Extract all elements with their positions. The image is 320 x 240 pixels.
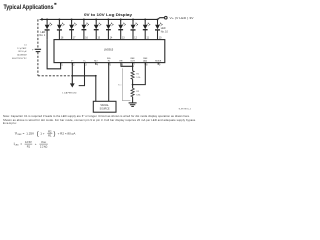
svg-text:ELECTROLYTIC: ELECTROLYTIC — [12, 58, 27, 60]
svg-text:SOURCE: SOURCE — [100, 108, 110, 110]
svg-text:+: + — [35, 142, 37, 146]
svg-text:R2: R2 — [48, 129, 52, 133]
svg-text:1.25V: 1.25V — [26, 131, 34, 135]
svg-text:No. 1: No. 1 — [39, 34, 45, 37]
svg-text:=: = — [20, 142, 22, 146]
svg-text:Example:: Example: — [3, 121, 17, 125]
svg-text:2.2 µF TANT.: 2.2 µF TANT. — [17, 47, 27, 50]
svg-text:Shown as above is wired for do: Shown as above is wired for dot mode. Fo… — [3, 118, 196, 122]
svg-text:No. 10: No. 10 — [161, 30, 169, 33]
svg-text:Typical Applications: Typical Applications — [4, 4, 54, 11]
svg-text:ALUMINUM: ALUMINUM — [17, 54, 26, 57]
svg-text:1 mA PER LED: 1 mA PER LED — [62, 92, 77, 95]
svg-text:LM3915: LM3915 — [104, 47, 114, 51]
svg-text:SIGNAL: SIGNAL — [100, 104, 109, 107]
svg-text:2.2 kΩ: 2.2 kΩ — [40, 144, 48, 148]
svg-text:Note: Capacitor C1 is required: Note: Capacitor C1 is required if leads … — [3, 114, 190, 118]
svg-text:OR 10 µF: OR 10 µF — [18, 51, 27, 53]
svg-text:R1: R1 — [27, 144, 31, 148]
svg-text:R1: R1 — [48, 133, 52, 137]
svg-text:1 +: 1 + — [40, 131, 45, 135]
svg-text:TL/H/7970–2: TL/H/7970–2 — [178, 108, 191, 110]
svg-text:0V to 10V Log Display: 0V to 10V Log Display — [84, 13, 132, 17]
svg-text:=: = — [23, 131, 25, 135]
svg-text:LED: LED — [15, 145, 19, 147]
svg-text:V+ (V LED ) 3V: V+ (V LED ) 3V — [170, 16, 194, 20]
svg-text:MODE: MODE — [155, 60, 162, 62]
svg-text:): ) — [53, 131, 55, 138]
svg-text:ADJ: ADJ — [143, 59, 147, 62]
svg-text:+ R2 × 80 µA: + R2 × 80 µA — [58, 131, 76, 135]
svg-text:12.5V: 12.5V — [25, 140, 32, 144]
